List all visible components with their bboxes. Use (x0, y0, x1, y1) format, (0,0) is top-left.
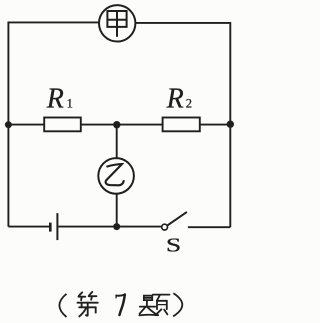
node: center rail junction (113, 121, 120, 128)
switch S lever (open) (167, 212, 187, 226)
svg-text:R: R (46, 83, 64, 114)
wire: top rail right segment (135, 22, 230, 24)
wire: middle rail right segment (200, 124, 231, 126)
wire: switch to bottom-right corner (188, 226, 230, 228)
resistor R2 (163, 118, 200, 132)
wire: middle rail left segment (8, 124, 44, 126)
wire: battery to switch segment (58, 226, 161, 228)
wire: bottom rail left segment (8, 226, 49, 228)
meter label 甲 (107, 11, 126, 37)
node: right rail junction (227, 121, 234, 128)
meter label 乙 (106, 164, 124, 185)
caption: opening parenthesis (59, 294, 66, 317)
caption: character 题 (139, 295, 169, 316)
wire: left side (7, 22, 9, 227)
switch S pivot contact (162, 224, 168, 230)
wire: right side (229, 22, 231, 227)
wire: branch upper (junction to meter 乙) (116, 125, 118, 159)
battery BT1 negative plate (short bar) (49, 223, 52, 232)
svg-text:S: S (166, 235, 181, 257)
wire: top rail left segment (8, 21, 99, 23)
node: bottom rail junction (113, 223, 120, 230)
caption: character 第 (78, 292, 98, 317)
wire: branch lower (meter 乙 to bottom rail) (116, 194, 118, 227)
node: left rail junction (5, 121, 12, 128)
svg-text:1: 1 (67, 97, 73, 111)
battery BT1 positive plate (long bar) (56, 213, 58, 240)
svg-text:2: 2 (186, 97, 192, 111)
caption: closing parenthesis (173, 293, 182, 316)
svg-text:R: R (166, 83, 184, 114)
resistor R1 (44, 118, 81, 132)
caption: digit 7 (116, 295, 125, 316)
voltmeter M2 circle (meter 乙) (98, 158, 134, 194)
wire: middle rail center segment (81, 124, 163, 126)
ammeter M1 circle (meter 甲) (99, 5, 135, 41)
